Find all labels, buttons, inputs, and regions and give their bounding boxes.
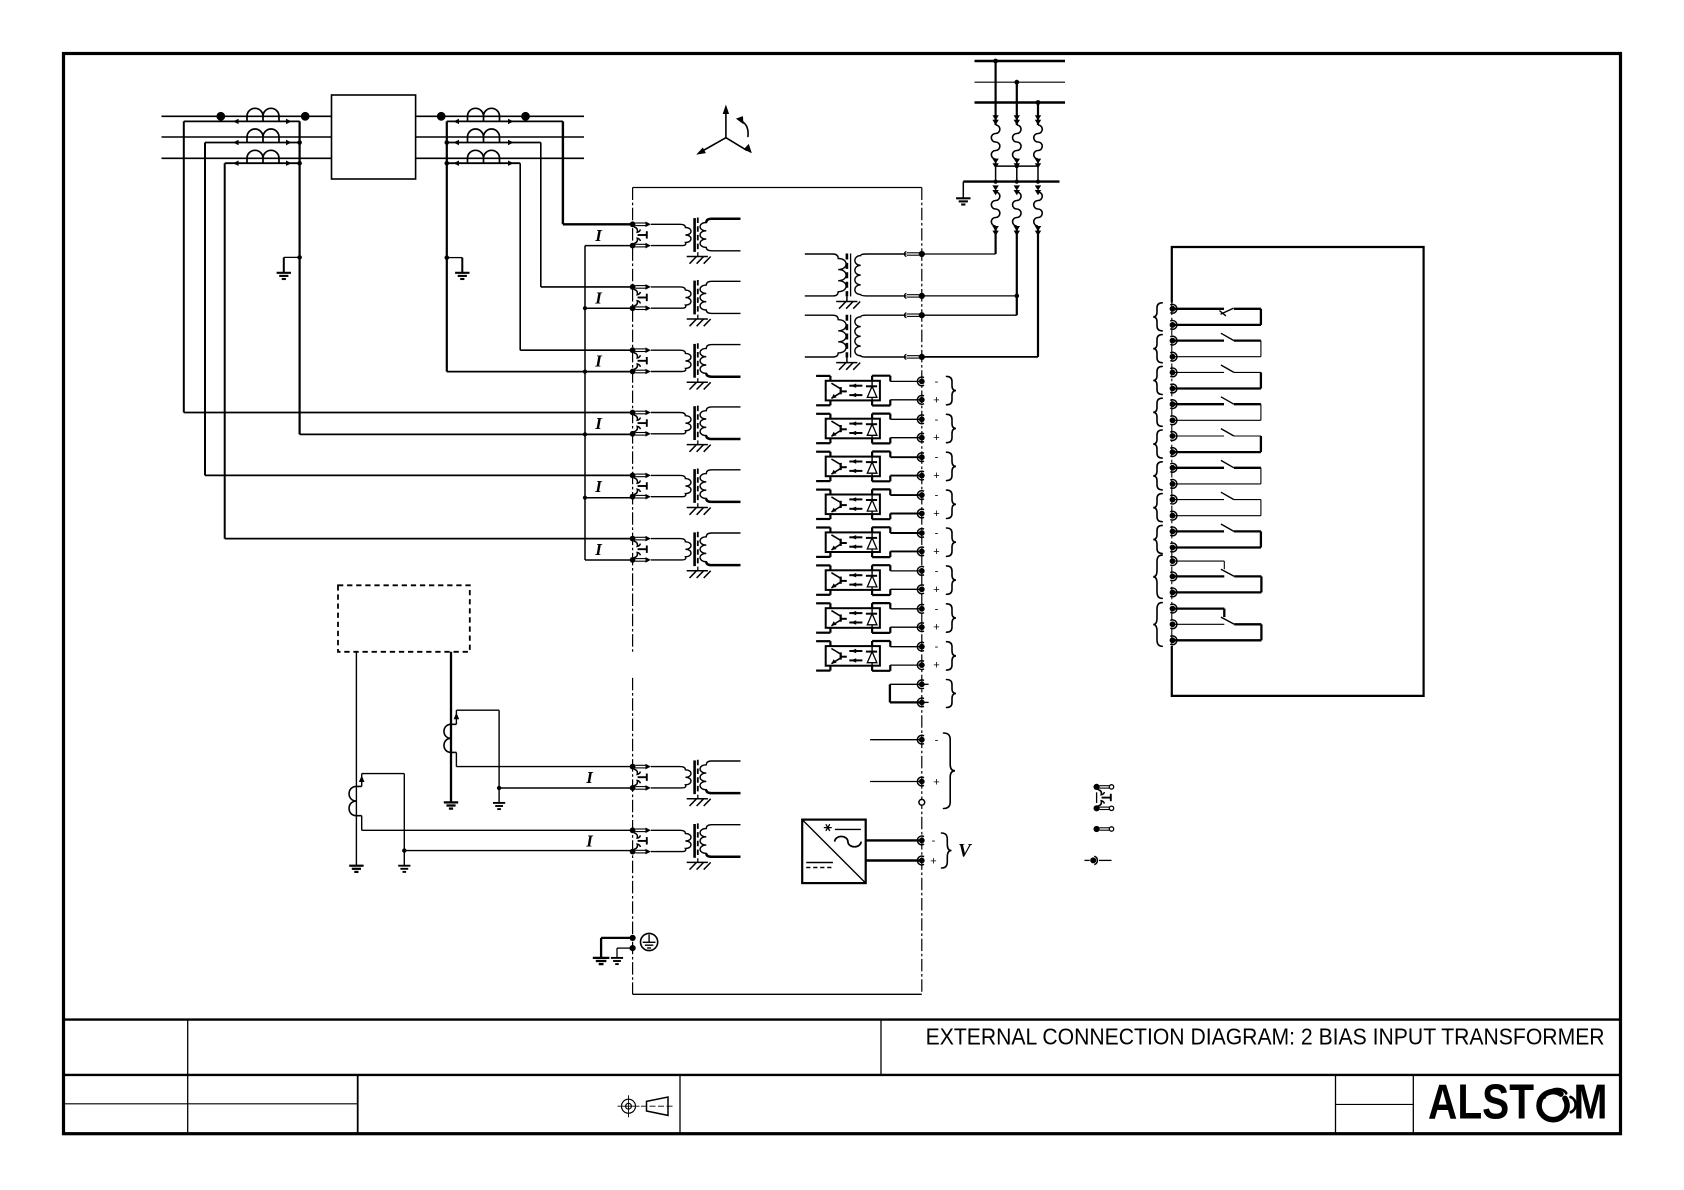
input transformer T7 ground [697,795,699,799]
wire I1 return [585,245,633,247]
svg-text:ALST: ALST [1428,1076,1534,1130]
input transformer T2 core [693,281,696,315]
polarity arrow CT L3 s2 [286,161,292,166]
opto input U1 right bracket [871,376,873,381]
opto input U3 left wires [816,451,830,453]
current input I3 CT shorting link symbol [634,353,641,358]
wire dashed box left drop [355,652,357,866]
wire VT secondary B to terminal V2 [1016,226,1018,296]
polarity arrow CT L2 s2 [286,140,292,145]
current input I3 terminal lower [630,369,636,375]
output changeover contact K10 [1175,607,1225,609]
opto input U2 right bracket [871,414,873,419]
junction dot right star B [445,140,450,145]
legend CT terminal pair symbol [1094,784,1100,790]
opto input U1 phototransistor [840,387,842,394]
current input I2 terminal lower [630,305,636,311]
polarity arrow CT R3 s1 [453,161,459,166]
power terminal V minus [917,836,924,845]
neutral CT NCT1 winding [444,724,456,752]
junction dot left star B [297,140,302,145]
CT R3 (right bank phase C) winding [468,150,500,158]
input transformer T4 primary [651,413,691,434]
CT L1 (left bank phase A) winding [247,108,279,116]
output contact K6 terminal b [1170,479,1177,488]
wire PSU to V plus [866,859,922,861]
input transformer T5 primary [651,475,691,496]
input transformer T3 secondary lead emphasis [706,373,740,376]
output contact K4 terminal a [1170,400,1177,409]
polarity arrow CT L1 s2 [286,119,292,124]
arrows VT bank2 bottom B [1014,226,1020,231]
junction dot tie B [1015,164,1019,168]
junction dot left star C [297,161,302,166]
current input I7 CT shorting link symbol [634,769,641,774]
relay case middle box left edge upper [632,188,634,653]
binary input terminal BI3 minus [917,453,924,462]
wire opto U1 to terminals [890,380,922,382]
CT R2 (right bank phase B) winding [468,129,500,137]
brace output K9 [1153,555,1162,598]
output contact K2 terminal b [1170,352,1177,361]
power supply unit box [802,820,866,884]
brace BI6 [947,566,957,594]
input transformer T7 secondary [700,761,740,793]
polarity arrow CT L2 s1 [233,140,239,145]
opto input U3 LED [871,457,873,463]
wire opto U2 to terminals [890,418,922,420]
wire VT secondary A to terminal V1 [994,226,996,254]
node dot phase A right [437,112,446,121]
CT L3 secondary staple [246,158,248,163]
binary input terminal BI4 plus [917,509,924,518]
input transformer T5 ground [697,504,699,508]
wire aux terminal plus [870,781,922,783]
opto input U1 box [826,381,880,401]
binary input terminal BI6 minus [917,567,924,576]
input transformer T3 primary [651,350,691,371]
binary input terminal BI8 plus [917,661,924,670]
wire CT R2 to I2 [540,143,542,287]
output changeover contact K9 [1175,560,1225,562]
output changeover contact K10 terminal b [1170,620,1177,629]
wire ground tap right bank [447,257,463,259]
phase bus C (left section) [162,157,332,159]
opto input U8 box [826,646,880,666]
aux voltage transformer VT2 core [846,315,849,358]
binary input terminal BI8 minus [917,642,924,651]
station bus line 1 [975,60,1066,62]
junction dot bus2 A [994,180,998,184]
polarity arrow CT R2 s1 [453,140,459,145]
brace output K4 [1153,398,1162,426]
opto input U6 left wires [816,564,830,566]
binary input terminal BI7 plus [917,623,924,632]
wire ground tap left bank [284,256,300,258]
wire I2 return [585,307,633,309]
svg-text:M: M [1574,1076,1608,1130]
input transformer T6 secondary lead emphasis [706,562,740,565]
output changeover contact K10 terminal c [1170,636,1177,645]
wire opto U8 to terminals [890,646,922,648]
opto input U7 phototransistor [840,615,842,622]
CT L3 (left bank phase C) winding [247,150,279,158]
current input I8 CT shorting link symbol [634,833,641,838]
legend plug terminal symbol [1094,826,1100,832]
opto input U8 left wires [816,640,830,642]
phase bus B (left section) [162,136,332,138]
input transformer T3 secondary [700,345,740,377]
wire CT R3 to I3 [519,163,521,350]
ground right CT bank [455,272,469,274]
opto input U7 right bracket [871,603,873,608]
brace V [942,833,952,868]
binary input terminal BI7 minus [917,604,924,613]
opto input U8 right bracket [871,641,873,646]
svg-text:-: - [935,490,939,502]
arrows VT bank2 top C [1035,185,1041,190]
wire I3 return segment [585,371,633,373]
arrows VT bank1 bottom B [1014,159,1020,164]
arrows VT bank1 bottom A [992,159,998,164]
junction dot bus phase C [1036,100,1041,105]
power terminal V plus [917,856,924,865]
voltage terminal V4 plug [905,354,907,359]
aux terminal minus [917,735,924,744]
binary input terminal BI5 plus [917,547,924,556]
phase bus A (left section) [162,115,332,117]
brace BI5 [947,528,957,556]
brace BI3 [947,452,957,480]
brace output K5 [1153,430,1162,458]
opto input U4 box [826,495,880,515]
brace BI7 [947,604,957,632]
ground NCT2 return [403,851,405,866]
output contact K8 terminal b [1170,543,1177,552]
opto input U3 light arrows [849,461,862,463]
polarity arrow CT R3 s2 [508,161,514,166]
brace output K6 [1153,462,1162,490]
current input I1 terminal lower [630,243,636,249]
input transformer T7 core [693,760,696,794]
power supply AC line [835,828,861,830]
ground VT bus [956,197,970,199]
polarity arrow CT R1 s2 [508,119,514,124]
opto input U5 phototransistor [840,539,842,546]
input transformer T5 secondary [700,470,740,502]
current input I8 terminal lower [630,849,636,855]
input transformer T6 core [693,532,696,566]
svg-text:+: + [933,432,939,444]
brace output K3 [1153,366,1162,394]
svg-text:+: + [930,855,936,867]
input transformer T2 primary [651,287,691,308]
input transformer T8 ground [697,858,699,862]
CT R2 secondary staple [467,137,469,143]
wire left star to I4 return [300,433,633,435]
opto input U4 phototransistor [840,501,842,508]
input transformer T4 core [693,406,696,440]
ground left CT bank [277,272,291,274]
ground earth terminal 1 [593,957,610,959]
current input I4 terminal lower [630,431,636,437]
input transformer T6 ground [697,567,699,571]
terminal shorted pair upper [917,680,924,689]
opto input U3 phototransistor [840,463,842,470]
output contact K4 terminal b [1170,416,1177,425]
brace BI4 [947,490,957,518]
wire CT L3 secondary [225,162,300,164]
voltage terminal V3 plug [905,313,907,318]
brace BI8 [947,642,957,670]
output changeover contact K9 terminal b [1170,572,1177,581]
input transformer T1 secondary [700,219,740,251]
output contact K6 [1175,467,1225,469]
output changeover contact K9 terminal a [1170,557,1177,566]
binary input terminal BI1 minus [917,377,924,386]
current input I6 terminal upper [630,536,636,542]
VT bank1 winding phase C [1034,125,1043,159]
current input I6 CT shorting link symbol [634,541,641,546]
opto input U1 light arrows [849,385,862,387]
svg-text:-: - [935,376,939,388]
opto input U5 right bracket [871,527,873,532]
input transformer T8 primary [651,830,691,851]
opto input U7 LED [871,608,873,614]
title block divider x=187.7 [187,1020,189,1134]
binary input terminal BI4 minus [917,491,924,500]
output changeover contact K9 terminal c [1170,588,1177,597]
input transformer T1 core [693,218,696,252]
junction dot right star C [445,161,450,166]
junction dot bus2 C [1036,180,1040,184]
phase bus A (right section) [416,115,584,117]
station bus line 3 [975,101,1066,103]
input transformer T1 secondary lead emphasis [706,219,740,223]
svg-text:+: + [933,470,939,482]
wire CT R3 secondary [447,162,520,164]
phase bus C (right section) [416,157,584,159]
title block divider x=680 [679,1075,681,1134]
input transformer T8 secondary lead emphasis [706,853,740,856]
binary input terminal BI1 plus [917,395,924,404]
binary input terminal BI6 plus [917,585,924,594]
brace output K1 [1153,303,1162,331]
opto input U6 LED [871,570,873,576]
input transformer T2 secondary [700,281,740,313]
wire left-bank vertical to I4 [183,121,185,412]
output contact K4 [1175,403,1225,405]
opto input U4 light arrows [849,498,862,500]
aux terminal plus [917,777,924,786]
polarity arrow CT L1 s1 [233,119,239,124]
relay case middle box top edge [633,187,922,189]
wire VT bank1 drop phase A [994,61,996,125]
wire shorted pair link [890,683,922,685]
current input I4 CT shorting link symbol [634,415,641,420]
VT bank2 winding phase B [1013,192,1022,226]
junction dot NCT2 [402,848,406,852]
input transformer T1 primary [651,224,691,245]
aux voltage transformer VT2 secondary [855,315,907,357]
opto input U5 box [826,532,880,552]
CT R1 (right bank phase A) winding [468,108,500,116]
title block thin revision line [64,1103,358,1105]
binary input terminal BI2 minus [917,415,924,424]
wire NCT2 to I8 upper [361,816,363,831]
junction dot bus phase A [993,59,998,64]
wire I5 return [585,497,633,499]
protective earth symbol [641,933,658,950]
wire CT L2 secondary [205,142,300,144]
opto input U5 light arrows [849,536,862,538]
relay case middle box bottom edge [633,993,922,995]
opto input U4 right bracket [871,489,873,494]
output contact K5 terminal a [1170,432,1177,441]
wire NCT1 to I7 lower [499,787,632,789]
relay case middle box right edge [921,188,923,995]
arrows VT bank2 top A [992,185,998,190]
arrows VT bank2 bottom A [992,226,998,231]
svg-text:V: V [958,841,972,862]
voltage terminal V4 [919,354,925,360]
opto input U6 light arrows [849,574,862,576]
wire VT bank1 to tie C [1037,159,1039,182]
wire earth terminal 2 [617,947,633,949]
wire VT bank1 drop phase B [1016,82,1018,125]
current input I6 terminal lower [630,557,636,563]
brace BI1 [947,376,957,404]
opto input U6 right bracket [871,565,873,570]
title block divider x=1335.5 [1335,1075,1337,1134]
phase rotation symbol [696,105,752,155]
input transformer T6 secondary [700,533,740,565]
ground NCT1 return [498,788,500,803]
output contact K6 terminal a [1170,463,1177,472]
wire earth terminal 1 [601,937,633,939]
output contact K8 [1175,530,1225,532]
voltage terminal V2 plug [905,293,907,298]
wire left-bank vertical to I5 [204,143,206,476]
opto input U2 phototransistor [840,425,842,432]
junction dot left star ground tap [297,255,302,260]
arrows VT bank1 top C [1035,115,1041,120]
opto input U3 right bracket [871,452,873,457]
svg-text:+: + [933,394,939,406]
VT bank2 winding phase A [991,192,1000,226]
remote CT dashed box [338,585,470,652]
junction dot neutral-I4 [583,432,587,436]
binary input terminal BI5 minus [917,529,924,538]
wire PSU to V minus [866,839,922,841]
input transformer T3 ground [697,378,699,382]
svg-text:+: + [933,584,939,596]
terminal shorted pair lower [917,698,924,707]
current input I5 CT shorting link symbol [634,478,641,483]
voltage terminal V2 [919,293,925,299]
current input I5 terminal upper [630,473,636,479]
wire opto U7 to terminals [890,608,922,610]
current input I2 terminal upper [630,284,636,290]
opto input U5 left wires [816,526,830,528]
input transformer T4 ground [697,441,699,445]
brace BI2 [947,414,957,442]
output contact K7 terminal a [1170,495,1177,504]
voltage terminal V1 [919,251,925,257]
aux voltage transformer VT2 primary [805,315,846,357]
wire CT R2 secondary [447,142,541,144]
neutral CT NCT2 winding [349,786,362,815]
svg-text:-: - [935,641,939,653]
ground dashed box right [444,801,458,803]
wire opto U3 to terminals [890,456,922,458]
wire CT L1 secondary [184,120,300,122]
title block divider x=1413.3 [1412,1075,1414,1134]
junction dot neutral-I3 [583,370,587,374]
svg-text:-: - [935,452,939,464]
neutral CT NCT1 secondary [455,710,457,724]
svg-text:+: + [933,546,939,558]
voltage terminal V3 [919,312,925,318]
svg-text:-: - [935,603,939,615]
legend socket terminal symbol [1085,859,1090,861]
input transformer T4 secondary lead emphasis [706,436,740,439]
wire NCT2 to I8 lower [404,850,632,852]
aux voltage transformer VT2 ground [846,358,848,363]
current input I4 terminal upper [630,410,636,416]
svg-text:-: - [932,835,936,847]
node dot phase A left-2 [301,112,310,121]
VT bank1 winding phase B [1013,125,1022,159]
input transformer T1 ground [697,253,699,257]
current input I7 terminal upper [630,764,636,770]
output contact K8 terminal a [1170,527,1177,536]
opto input U6 phototransistor [840,577,842,584]
wire left-bank star point bus [299,121,301,434]
VT bank1 winding phase A [991,125,1000,159]
ground earth terminal 2 [611,957,623,959]
polarity arrow CT R1 s1 [453,119,459,124]
CT L2 (left bank phase B) winding [247,129,279,137]
opto input U8 LED [871,646,873,652]
opto input U4 LED [871,495,873,501]
input transformer T8 core [693,824,696,858]
output contact K2 [1175,339,1225,341]
output contact K3 terminal b [1170,384,1177,393]
output contact K3 terminal a [1170,368,1177,377]
voltage terminal V1 plug [905,252,907,257]
power supply star mark [824,825,831,831]
wire VT bank1 to tie B [1016,159,1018,182]
title block middle line [64,1074,1621,1076]
current input I5 terminal lower [630,494,636,500]
aux voltage transformer VT1 core [846,254,849,297]
junction dot bus2 B [1015,180,1019,184]
output contact K5 [1175,435,1225,437]
opto input U2 left wires [816,413,830,415]
input transformer T5 secondary lead emphasis [706,499,740,502]
title block divider x=357.7 [357,1075,359,1134]
ALSTOM logo [1428,1076,1608,1130]
power supply sine wave [835,836,861,846]
svg-text:+: + [933,508,939,520]
wire opto U5 to terminals [890,532,922,534]
wire opto U6 to terminals [890,570,922,572]
opto input U2 box [826,419,880,439]
CT R3 secondary staple [467,158,469,163]
opto input U8 phototransistor [840,652,842,659]
current input I2 CT shorting link symbol [634,289,641,294]
